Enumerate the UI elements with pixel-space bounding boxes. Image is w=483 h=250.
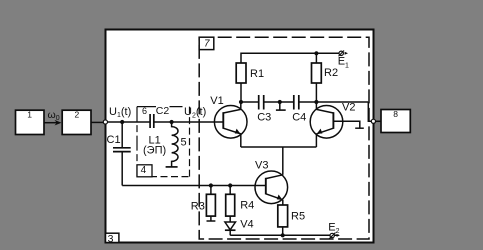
svg-text:V3: V3 [255,160,268,172]
svg-text:C4: C4 [292,112,306,124]
svg-text:2: 2 [75,109,80,119]
svg-text:3: 3 [108,233,114,245]
svg-text:R2: R2 [324,67,338,79]
svg-text:R3: R3 [191,200,205,212]
svg-text:8: 8 [393,109,398,119]
svg-text:1: 1 [27,109,32,119]
svg-text:V4: V4 [240,219,253,231]
svg-text:V1: V1 [210,95,223,107]
svg-text:6: 6 [142,106,147,116]
svg-text:C3: C3 [257,112,271,124]
svg-text:U2(t): U2(t) [184,106,206,119]
svg-text:C2: C2 [156,105,170,117]
svg-text:V2: V2 [342,102,355,114]
svg-text:(ЭП): (ЭП) [143,145,166,157]
svg-text:7: 7 [204,39,210,50]
svg-text:4: 4 [141,165,147,176]
svg-text:R1: R1 [250,68,264,80]
svg-text:R4: R4 [240,200,254,212]
svg-text:C1: C1 [107,134,121,146]
svg-text:5: 5 [181,137,187,149]
svg-text:U1(t): U1(t) [109,106,131,119]
svg-text:R5: R5 [291,210,305,222]
